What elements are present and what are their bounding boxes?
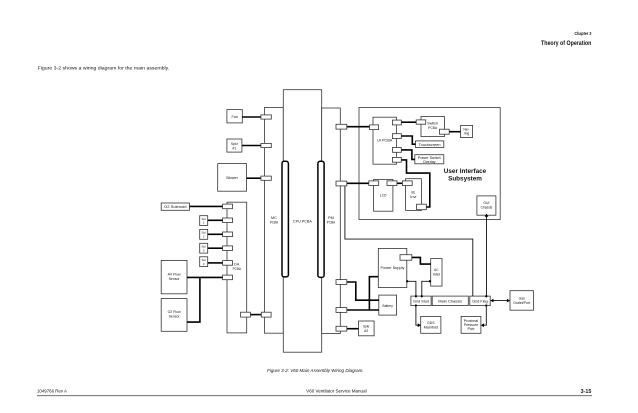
svg-text:Sensor: Sensor [169, 277, 181, 281]
svg-text:#2: #2 [364, 329, 368, 333]
svg-text:Power Supply: Power Supply [381, 266, 405, 270]
svg-text:Spkr: Spkr [363, 325, 370, 329]
svg-text:Figure 3-2 shows a wiring diag: Figure 3-2 shows a wiring diagram for th… [38, 65, 170, 71]
svg-text:Sensor: Sensor [169, 315, 181, 319]
svg-text:Subsystem: Subsystem [448, 176, 482, 183]
svg-text:Spkr: Spkr [231, 142, 239, 146]
svg-text:V60 Ventilator Service Manual: V60 Ventilator Service Manual [306, 389, 366, 394]
svg-text:PCBA: PCBA [428, 126, 437, 130]
svg-text:Figure 3-2: V60 Main Assembly: Figure 3-2: V60 Main Assembly Wiring Dia… [267, 368, 364, 374]
svg-text:Fan: Fan [232, 115, 238, 119]
svg-text:Invr: Invr [410, 195, 417, 199]
svg-text:PCBA: PCBA [327, 221, 336, 225]
svg-text:Gas: Gas [519, 297, 526, 301]
svg-text:O2 Solenoid: O2 Solenoid [164, 205, 187, 209]
svg-text:Inlet: Inlet [433, 272, 440, 276]
svg-text:Chapter 3: Chapter 3 [575, 31, 592, 36]
svg-text:BL: BL [412, 191, 416, 195]
svg-text:O2 Flow: O2 Flow [168, 310, 181, 314]
svg-text:UI PCBA: UI PCBA [377, 139, 393, 143]
svg-text:Theory of Operation: Theory of Operation [541, 40, 591, 47]
svg-text:PM: PM [328, 216, 334, 220]
svg-text:#1: #1 [232, 146, 236, 150]
svg-text:Outlet/Port: Outlet/Port [513, 301, 530, 305]
svg-text:Manifold: Manifold [424, 325, 439, 329]
svg-text:Battery: Battery [383, 304, 394, 308]
svg-text:Switch: Switch [427, 121, 438, 125]
svg-text:CPU PCBA: CPU PCBA [293, 219, 312, 223]
svg-text:User Interface: User Interface [444, 168, 487, 175]
svg-text:Gnd Stud: Gnd Stud [413, 300, 429, 304]
svg-text:PCBA: PCBA [233, 267, 242, 271]
svg-text:Port: Port [468, 327, 475, 331]
svg-text:Overlay: Overlay [423, 160, 436, 164]
svg-text:1049766 Rev A: 1049766 Rev A [37, 388, 67, 393]
svg-text:Blower: Blower [226, 176, 238, 180]
svg-text:MC: MC [271, 216, 277, 220]
svg-text:GDS: GDS [427, 321, 435, 325]
svg-text:PCBA: PCBA [270, 221, 279, 225]
svg-text:ring: ring [464, 132, 470, 136]
svg-text:AC: AC [434, 268, 439, 272]
svg-text:Gnd Flag: Gnd Flag [472, 300, 488, 304]
svg-text:Air Flow: Air Flow [168, 273, 181, 277]
svg-text:LCD: LCD [380, 194, 387, 198]
svg-text:Main Chassis: Main Chassis [438, 300, 462, 304]
svg-text:Touchscreen: Touchscreen [419, 143, 441, 147]
svg-text:DA: DA [234, 263, 240, 267]
svg-text:3-15: 3-15 [581, 389, 592, 395]
svg-text:Chassis: Chassis [481, 206, 493, 210]
